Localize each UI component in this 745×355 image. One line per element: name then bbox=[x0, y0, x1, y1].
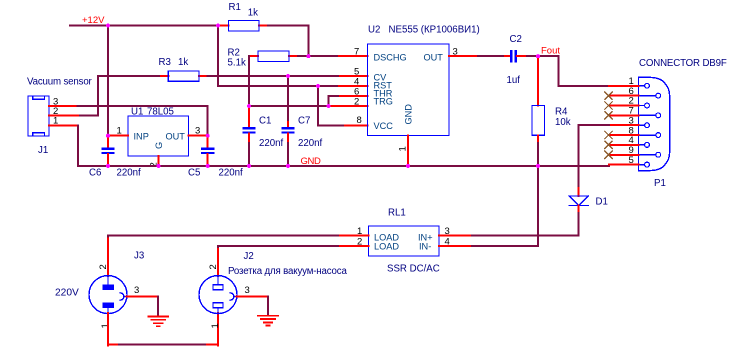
svg-text:INP: INP bbox=[134, 132, 149, 142]
wire RL1 pin1 to J3 pin2 bbox=[108, 236, 338, 239]
wire DSCHG line bbox=[308, 55, 339, 57]
svg-text:8: 8 bbox=[357, 115, 362, 126]
wire P1 pin3 red stub bbox=[609, 124, 639, 126]
svg-text:C2: C2 bbox=[510, 34, 522, 45]
wire C2 to Fout node bbox=[527, 55, 538, 57]
capacitor C1 bbox=[248, 106, 250, 127]
svg-text:3: 3 bbox=[134, 285, 139, 296]
socket J2 bbox=[199, 276, 237, 314]
pin P1-5 bbox=[639, 164, 645, 166]
wire THR jog bbox=[329, 96, 341, 106]
resistor R3 bbox=[159, 75, 168, 77]
resistor R2 bbox=[249, 55, 258, 57]
svg-text:R1: R1 bbox=[229, 2, 241, 13]
svg-text:1: 1 bbox=[210, 323, 221, 328]
wire P1 pin5 red stub bbox=[609, 164, 639, 166]
svg-text:J3: J3 bbox=[134, 251, 144, 262]
wire RL1 pin2 stub bbox=[338, 245, 369, 247]
svg-text:C6: C6 bbox=[89, 168, 101, 179]
wire D1 to SSR IN+ bbox=[578, 206, 580, 214]
svg-text:G: G bbox=[154, 142, 164, 149]
wire J3 pin1 to J2 pin1 bbox=[107, 313, 109, 346]
no-connect X pin6 bbox=[605, 92, 612, 99]
no-connect X pin8 bbox=[605, 131, 612, 138]
ground earth J2 bbox=[258, 316, 278, 326]
wire P1 pin2 red stub bbox=[609, 105, 639, 107]
svg-text:IN-: IN- bbox=[419, 242, 431, 252]
wire RL1 pin2 to J2 pin2 bbox=[218, 246, 338, 249]
wire RL1 pin3 stub bbox=[439, 235, 470, 237]
svg-text:RL1: RL1 bbox=[388, 208, 406, 219]
capacitor C2 bbox=[505, 55, 510, 57]
wire J2 pin3 to earth bbox=[237, 296, 268, 298]
pin P1-2 bbox=[639, 105, 645, 107]
capacitor C7 bbox=[287, 76, 289, 122]
svg-text:C5: C5 bbox=[188, 168, 200, 179]
wire RST red stub pin4 bbox=[339, 85, 368, 87]
wire R3 left to J1 pin2 bbox=[78, 76, 159, 116]
no-connect X pin7 bbox=[605, 112, 612, 119]
wire P1 pin9 red stub bbox=[609, 154, 639, 156]
svg-text:7: 7 bbox=[354, 47, 359, 58]
wire P1 pin3 down to D1 bbox=[578, 125, 580, 188]
no-connect X pin2 bbox=[605, 102, 612, 109]
connector P1 DB9F shell bbox=[639, 77, 670, 170]
wire TRG line bbox=[249, 105, 329, 107]
wire U1 INP stub bbox=[108, 135, 128, 137]
wire U1 GND pin to rail bbox=[158, 156, 160, 166]
svg-text:Розетка для вакуум-насоса: Розетка для вакуум-насоса bbox=[228, 266, 347, 277]
wire J3 pin3 to earth bbox=[127, 296, 159, 298]
svg-text:J2: J2 bbox=[244, 251, 254, 262]
socket J3 bbox=[89, 276, 127, 314]
wire GND rail bbox=[78, 165, 609, 167]
wire THR red stub pin6 bbox=[340, 95, 368, 97]
svg-text:2: 2 bbox=[208, 264, 219, 269]
svg-text:SSR DC/AC: SSR DC/AC bbox=[387, 264, 440, 275]
svg-text:LOAD: LOAD bbox=[374, 242, 399, 252]
wire OUT pin3 stub bbox=[449, 55, 478, 57]
wire SSR IN- line bbox=[470, 245, 538, 247]
wire RL1 pin1 stub bbox=[338, 235, 369, 237]
pin P1-1 bbox=[639, 85, 645, 87]
wire P1 pin4 red stub bbox=[609, 144, 639, 146]
wire Fout to DB9 pin1 bbox=[538, 56, 609, 86]
wire OUT to C2 bbox=[478, 55, 505, 57]
capacitor C5 bbox=[207, 136, 209, 148]
svg-text:R4: R4 bbox=[555, 107, 568, 118]
svg-text:GND: GND bbox=[404, 104, 414, 125]
svg-text:OUT: OUT bbox=[166, 132, 186, 142]
svg-text:Fout: Fout bbox=[541, 46, 560, 57]
svg-text:DSCHG: DSCHG bbox=[374, 53, 407, 63]
relay RL1 SSR bbox=[369, 226, 440, 256]
wire +12V rail bbox=[70, 25, 218, 27]
wire CV line bbox=[208, 75, 341, 77]
resistor R4 bbox=[537, 56, 539, 105]
svg-text:D1: D1 bbox=[596, 197, 608, 208]
svg-text:220nf: 220nf bbox=[259, 138, 284, 149]
no-connect X pin4 bbox=[605, 141, 612, 148]
pin P1-6 bbox=[639, 95, 656, 97]
wire R1 right to pin7 node bbox=[268, 26, 308, 57]
svg-text:TRG: TRG bbox=[374, 97, 393, 107]
svg-text:VCC: VCC bbox=[374, 121, 394, 131]
pin P1-4 bbox=[639, 144, 645, 146]
wire J1 pin3 stub bbox=[49, 105, 78, 107]
svg-text:78L05: 78L05 bbox=[147, 107, 174, 118]
svg-text:R3: R3 bbox=[159, 57, 171, 68]
svg-text:3: 3 bbox=[245, 285, 250, 296]
wire +12V down to U1 INP bbox=[107, 26, 109, 136]
wire J1 pin1 to GND rail bbox=[77, 125, 79, 165]
ground earth J3 bbox=[148, 316, 168, 326]
wire P1 pin6 red stub bbox=[609, 95, 639, 97]
pin P1-7 bbox=[639, 114, 656, 116]
svg-text:5.1k: 5.1k bbox=[228, 58, 246, 69]
wire U1 OUT stub bbox=[189, 135, 208, 137]
wire J1 pin2 stub bbox=[49, 115, 78, 117]
svg-text:2: 2 bbox=[98, 264, 109, 269]
svg-text:C7: C7 bbox=[298, 116, 310, 127]
pin P1-3 bbox=[639, 124, 645, 126]
pin P1-9 bbox=[639, 154, 656, 156]
svg-text:OUT: OUT bbox=[424, 53, 444, 63]
wire VCC red stub pin8 bbox=[345, 124, 368, 126]
wire rail to SSR IN- bbox=[537, 166, 539, 246]
wire R2 left down to TRG bbox=[248, 56, 250, 106]
svg-text:1k: 1k bbox=[248, 8, 258, 19]
svg-text:P1: P1 bbox=[654, 178, 666, 189]
svg-text:10k: 10k bbox=[555, 117, 571, 128]
svg-text:J1: J1 bbox=[38, 145, 48, 156]
svg-text:220V: 220V bbox=[55, 288, 79, 299]
svg-text:1k: 1k bbox=[178, 57, 188, 68]
wire TRG red stub pin2 bbox=[329, 105, 368, 107]
wire CV red stub pin5 bbox=[340, 75, 368, 77]
wire J1 pin1 stub bbox=[49, 124, 78, 126]
svg-text:220nf: 220nf bbox=[298, 138, 323, 149]
wire +12V stub to R1 bbox=[218, 25, 229, 27]
svg-text:CONNECTOR DB9F: CONNECTOR DB9F bbox=[639, 58, 727, 69]
regulator U1 78L05 bbox=[128, 116, 189, 156]
capacitor C6 bbox=[107, 136, 109, 148]
svg-text:C1: C1 bbox=[259, 116, 271, 127]
wire P1 pin1 red stub bbox=[609, 85, 639, 87]
wire DSCHG red stub pin7 bbox=[339, 55, 368, 57]
svg-text:+12V: +12V bbox=[82, 15, 105, 26]
svg-text:1uf: 1uf bbox=[507, 75, 521, 86]
wire U2 GND pin to rail bbox=[407, 136, 409, 166]
wire J1 pin3 to U1 OUT bbox=[78, 106, 208, 136]
timer U2 NE555 bbox=[368, 44, 450, 136]
svg-text:220nf: 220nf bbox=[219, 168, 244, 179]
wire P1 pin7 red stub bbox=[609, 114, 639, 116]
svg-text:1: 1 bbox=[100, 323, 111, 328]
resistor R1 bbox=[259, 25, 268, 27]
svg-text:1: 1 bbox=[398, 146, 409, 151]
svg-text:Vacuum sensor: Vacuum sensor bbox=[27, 77, 93, 88]
wire P1 pin8 red stub bbox=[609, 134, 639, 136]
wire RL1 pin4 stub bbox=[439, 245, 470, 247]
pin P1-8 bbox=[639, 134, 656, 136]
diode D1 bbox=[569, 196, 588, 206]
connector J1 bbox=[28, 96, 49, 136]
no-connect X pin9 bbox=[605, 151, 612, 158]
svg-text:2: 2 bbox=[354, 97, 359, 108]
junction dots bbox=[106, 24, 540, 168]
svg-text:U1: U1 bbox=[131, 107, 143, 118]
svg-text:220nf: 220nf bbox=[117, 168, 142, 179]
svg-text:NE555 (КР1006ВИ1): NE555 (КР1006ВИ1) bbox=[389, 25, 480, 36]
wire RST to VCC bbox=[318, 86, 345, 125]
wire R2 right to node bbox=[298, 55, 308, 57]
wire +12V down to RST bbox=[218, 26, 339, 87]
svg-text:U2: U2 bbox=[368, 25, 380, 36]
